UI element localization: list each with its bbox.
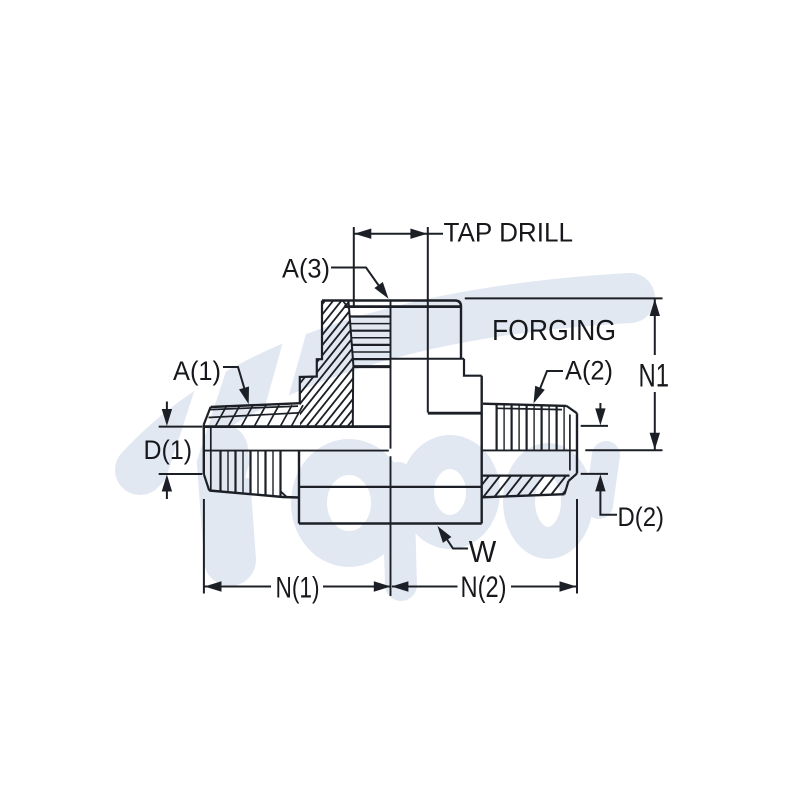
right branch root line <box>497 408 563 409</box>
N1 bottom extension line <box>585 449 662 451</box>
D(2) top arrow <box>595 408 605 425</box>
N1 dimension line upper <box>654 298 656 355</box>
tap hole left wall <box>352 367 354 426</box>
N1 top extension line <box>465 297 663 299</box>
N(2) dim line left segment <box>392 586 458 588</box>
N1 bottom arrow <box>650 433 660 450</box>
tap hole right wall / extension line <box>427 227 429 413</box>
N(1) left extension line <box>203 499 205 594</box>
A(1) leader <box>223 367 246 395</box>
svg-text:A(3): A(3) <box>282 254 330 284</box>
D(1) top arrow tail <box>166 402 168 412</box>
svg-text:W: W <box>469 534 497 569</box>
N(2) right extension line <box>576 499 578 594</box>
body left edge lower <box>298 451 300 524</box>
svg-text:TAP DRILL: TAP DRILL <box>444 218 574 248</box>
D(2) bottom extension line <box>581 473 608 475</box>
right nose chamfer edge line <box>569 415 571 471</box>
A(3) arrowhead <box>374 282 388 299</box>
svg-text:N(2): N(2) <box>461 571 507 604</box>
N(1) dim line left segment <box>204 586 271 588</box>
svg-text:FORGING: FORGING <box>492 315 616 347</box>
tap drill left extension line <box>353 227 355 307</box>
svg-text:D(2): D(2) <box>618 502 665 532</box>
svg-text:N(1): N(1) <box>276 571 320 604</box>
body bottom edge <box>299 522 482 525</box>
left branch root line <box>209 413 299 418</box>
watermark Topa logo <box>140 298 630 585</box>
D(2) bottom arrow <box>595 474 605 491</box>
N(1) dim line right segment <box>323 586 390 588</box>
hex flat line (thick) <box>428 412 482 415</box>
right branch external threads <box>496 404 498 450</box>
internal thread major taper <box>349 301 354 367</box>
forging steps left / top branch left edge <box>300 301 322 404</box>
forging shoulder line <box>391 358 464 360</box>
left branch crest line <box>211 406 298 410</box>
left nose chamfer edge line <box>210 427 212 491</box>
left branch thread flank lines <box>216 405 228 426</box>
D(1) bottom arrow <box>162 475 172 492</box>
right nose top chamfer <box>567 406 578 413</box>
svg-text:A(1): A(1) <box>173 356 221 386</box>
D(1) top extension line <box>159 426 203 428</box>
svg-text:N1: N1 <box>639 357 670 393</box>
A(1) arrowhead <box>239 387 249 405</box>
N(1) outer arrow <box>205 581 222 591</box>
W leader <box>442 531 469 549</box>
right wall chamfer slant <box>565 481 569 494</box>
tap drill dimension line <box>354 233 443 235</box>
body hex boundary line <box>299 486 482 488</box>
svg-text:A(2): A(2) <box>565 356 613 386</box>
top branch outline: face and right side <box>322 301 461 360</box>
forging step right <box>464 359 482 376</box>
right branch bottom edge <box>482 494 565 497</box>
D(1) top arrow <box>162 409 172 426</box>
D(2) leader L <box>600 490 617 515</box>
section hatch right branch wall <box>470 472 580 500</box>
N(1) inner arrow <box>374 581 391 591</box>
right nose face <box>576 413 578 473</box>
tap drill right arrow <box>410 229 427 239</box>
right branch top edge <box>483 404 567 406</box>
left branch top edge <box>211 403 300 407</box>
thread runout <box>281 491 288 497</box>
A(2) leader <box>538 371 564 395</box>
left nose face <box>203 425 205 475</box>
N1 dimension line lower <box>654 392 656 450</box>
W arrowhead <box>438 526 452 543</box>
body right edge <box>481 376 483 524</box>
left nose top chamfer <box>204 407 211 425</box>
left nose bottom chamfer <box>204 474 209 491</box>
tap drill left arrow <box>354 229 371 239</box>
N(2) dim line right segment <box>511 586 577 588</box>
bore top line (thick) <box>204 425 390 428</box>
svg-text:D(1): D(1) <box>144 435 193 465</box>
countersink chamfer left <box>343 301 349 308</box>
top face chamfer line (thick) <box>344 305 461 308</box>
left branch external threads <box>219 451 221 491</box>
bore mid boundary right <box>482 449 577 451</box>
A(2) arrowhead <box>534 386 545 404</box>
left branch bottom edge <box>209 491 299 498</box>
bore bottom line right <box>482 475 570 477</box>
internal threads top branch <box>350 315 391 317</box>
bore mid boundary left <box>204 450 389 452</box>
D(1) bottom arrow tail <box>166 490 168 500</box>
N(2) inner arrow <box>391 581 408 591</box>
right nose bottom chamfer <box>569 473 578 481</box>
N(2) outer arrow <box>560 581 577 591</box>
D(1) bottom extension line <box>159 473 203 475</box>
D(2) top arrow tail <box>599 403 601 411</box>
vertical centerline <box>390 301 392 449</box>
N1 top arrow <box>650 299 660 316</box>
section hatch left body <box>220 292 463 432</box>
D(2) top extension line <box>581 425 608 427</box>
A(3) leader <box>331 268 384 294</box>
thread bottom thick line <box>354 365 391 368</box>
